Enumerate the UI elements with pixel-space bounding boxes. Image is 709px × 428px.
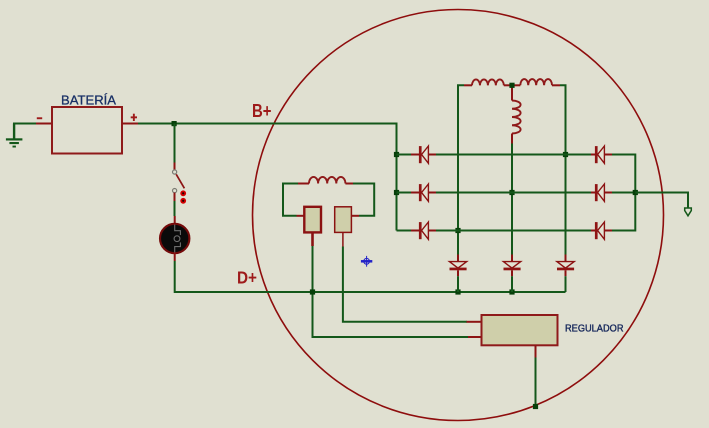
lamp L1 top pin lead xyxy=(174,216,176,224)
diode D3 row3 left xyxy=(411,222,436,239)
node phase A on D+ rail xyxy=(455,289,460,294)
diode D1 row1 left xyxy=(411,146,436,163)
brush left xyxy=(304,207,321,233)
wire right brush to regulator upper pin xyxy=(343,247,467,322)
switch SW1 bottom pin lead xyxy=(174,193,176,201)
svg-text:BATERÍA: BATERÍA xyxy=(61,92,116,107)
wire phase A vertical xyxy=(458,85,464,254)
switch SW1 top pin lead xyxy=(174,163,176,171)
node phase B on D+ rail xyxy=(509,289,514,294)
node phase B row2 xyxy=(509,190,514,195)
node phase C row1 xyxy=(563,152,568,157)
stator coil left L3 xyxy=(472,79,504,85)
diode D5 row2 right xyxy=(591,184,612,201)
node rail row1 xyxy=(394,152,399,157)
node stator star point xyxy=(509,83,514,88)
node rail row2 xyxy=(394,190,399,195)
ground xyxy=(6,124,23,148)
node phase A row3 xyxy=(455,228,460,233)
battery BAT1 box xyxy=(52,107,122,154)
brush right xyxy=(335,207,352,233)
regulator U1 box xyxy=(482,315,558,345)
alternator body circle xyxy=(253,10,664,421)
wire junction to switch xyxy=(174,124,176,163)
blue origin marker xyxy=(361,256,372,267)
right brush right pin lead xyxy=(351,215,359,217)
battery plus pin lead xyxy=(122,123,138,125)
wire rotor left to left brush xyxy=(283,184,298,216)
diode D2 row2 left xyxy=(411,184,436,201)
diode D7 trio phase A xyxy=(449,255,466,293)
node regulator case xyxy=(533,404,538,409)
svg-text:B+: B+ xyxy=(252,100,272,121)
row2 wire xyxy=(397,192,636,194)
battery minus pin lead xyxy=(36,123,52,125)
left brush bottom pin lead xyxy=(311,232,314,246)
lamp L1 xyxy=(160,224,189,253)
wire regulator to case xyxy=(535,358,537,407)
regulator upper-left pin lead xyxy=(467,321,483,323)
svg-text:D+: D+ xyxy=(237,268,257,288)
row1 wire xyxy=(397,154,636,156)
minus sign xyxy=(37,117,42,119)
wire left brush to regulator lower pin xyxy=(313,246,469,337)
wire phase B vertical xyxy=(511,144,513,255)
svg-text:REGULADOR: REGULADOR xyxy=(565,323,624,334)
diode D6 row3 right xyxy=(591,222,612,239)
wire output xyxy=(635,193,688,208)
wire switch to lamp xyxy=(174,201,176,216)
wire rotor right to right brush xyxy=(353,184,374,216)
node switch branch xyxy=(172,121,177,126)
diode D9 trio phase C xyxy=(557,255,574,293)
switch SW1 xyxy=(173,170,187,204)
left brush left pin lead xyxy=(297,215,305,217)
output terminal xyxy=(685,208,692,216)
rotor left pin lead xyxy=(298,183,309,185)
right brush bottom pin lead xyxy=(342,232,344,246)
regulator lower-left pin lead xyxy=(468,336,482,338)
diode D8 trio phase B xyxy=(503,255,520,293)
stator left coil leads xyxy=(464,85,560,143)
stator coil right L4 xyxy=(520,79,552,85)
wire ground to battery minus xyxy=(13,123,36,125)
right rail wire xyxy=(634,154,636,232)
wire B+ : battery to rectifier left rail xyxy=(138,124,397,231)
lamp L1 bottom pin lead xyxy=(174,253,176,261)
node output xyxy=(633,190,638,195)
rotor field winding L2 xyxy=(309,177,345,184)
plus sign xyxy=(131,114,137,121)
stator coil middle L5 (vertical) xyxy=(512,101,521,134)
row3 wire xyxy=(397,230,636,232)
regulator bottom pin lead xyxy=(535,345,537,357)
node left brush on D+ rail xyxy=(310,289,315,294)
rotor right pin lead xyxy=(345,183,353,185)
diode D4 row1 right xyxy=(591,146,612,163)
wire phase C vertical xyxy=(560,85,566,254)
wire lamp to D+ rail xyxy=(175,261,566,292)
